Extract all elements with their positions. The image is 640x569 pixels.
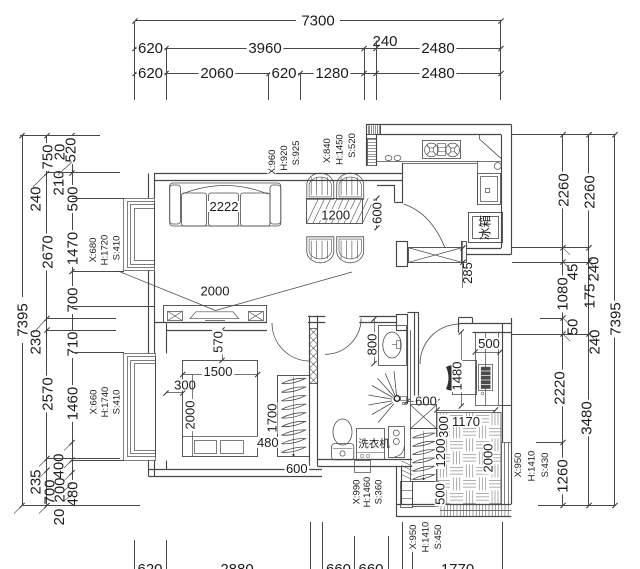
svg-text:20: 20	[51, 509, 68, 526]
svg-text:2480: 2480	[421, 40, 454, 57]
svg-text:500: 500	[478, 336, 500, 351]
svg-text:620: 620	[138, 40, 163, 57]
svg-text:2060: 2060	[200, 65, 233, 82]
svg-text:洗衣机: 洗衣机	[358, 437, 390, 450]
svg-text:X:950: X:950	[513, 453, 524, 478]
svg-text:2222: 2222	[210, 199, 239, 214]
svg-text:1480: 1480	[450, 362, 465, 391]
svg-text:660: 660	[326, 561, 351, 569]
svg-text:H:1410: H:1410	[526, 451, 537, 482]
svg-text:1080: 1080	[554, 277, 571, 310]
svg-text:2220: 2220	[551, 371, 568, 404]
svg-text:1200: 1200	[433, 439, 448, 468]
svg-text:620: 620	[271, 65, 296, 82]
svg-text:700: 700	[64, 287, 81, 312]
svg-text:S:520: S:520	[347, 133, 358, 158]
svg-text:600: 600	[415, 394, 437, 409]
svg-text:2260: 2260	[581, 175, 598, 208]
svg-text:S:925: S:925	[291, 141, 302, 166]
svg-text:500: 500	[433, 483, 448, 505]
svg-text:X:660: X:660	[88, 390, 99, 415]
svg-text:2670: 2670	[39, 235, 56, 268]
svg-text:50: 50	[564, 319, 581, 336]
svg-text:S:430: S:430	[540, 453, 551, 478]
svg-text:300: 300	[436, 416, 451, 438]
svg-text:1470: 1470	[64, 232, 81, 265]
svg-text:7300: 7300	[301, 12, 334, 29]
svg-text:H:1740: H:1740	[100, 387, 111, 418]
svg-text:1770: 1770	[441, 561, 474, 569]
svg-text:1170: 1170	[452, 414, 480, 429]
svg-text:H:1720: H:1720	[99, 235, 110, 266]
svg-text:2880: 2880	[220, 561, 253, 569]
svg-text:2000: 2000	[481, 444, 496, 473]
svg-text:20: 20	[51, 144, 68, 161]
svg-text:600: 600	[370, 202, 385, 224]
svg-text:X:950: X:950	[408, 525, 419, 550]
svg-text:X:680: X:680	[88, 238, 99, 263]
svg-text:400: 400	[50, 453, 67, 478]
svg-text:H:1460: H:1460	[362, 477, 373, 508]
svg-text:H:1450: H:1450	[334, 134, 345, 165]
svg-text:1460: 1460	[64, 387, 81, 420]
svg-text:2570: 2570	[39, 377, 56, 410]
svg-text:S:410: S:410	[111, 236, 122, 261]
svg-text:2480: 2480	[421, 65, 454, 82]
svg-text:480: 480	[257, 435, 279, 450]
svg-text:1200: 1200	[321, 207, 350, 222]
svg-text:570: 570	[210, 331, 225, 353]
svg-text:X:960: X:960	[267, 150, 278, 175]
svg-text:H:1410: H:1410	[420, 522, 431, 553]
svg-text:230: 230	[27, 329, 44, 354]
svg-text:240: 240	[586, 329, 603, 354]
svg-text:1260: 1260	[554, 459, 571, 492]
svg-text:3960: 3960	[248, 40, 281, 57]
svg-text:620: 620	[138, 65, 163, 82]
svg-text:S:360: S:360	[373, 480, 384, 505]
svg-text:2000: 2000	[201, 283, 230, 298]
svg-text:S:410: S:410	[111, 390, 122, 415]
svg-text:620: 620	[137, 561, 162, 569]
svg-text:3480: 3480	[578, 401, 595, 434]
svg-text:600: 600	[286, 461, 308, 476]
svg-text:1280: 1280	[315, 65, 348, 82]
svg-text:X:990: X:990	[351, 480, 362, 505]
svg-text:240: 240	[27, 186, 44, 211]
svg-text:660: 660	[358, 561, 383, 569]
svg-text:2000: 2000	[182, 401, 197, 430]
svg-text:7395: 7395	[607, 302, 624, 335]
svg-text:1500: 1500	[204, 364, 233, 379]
svg-text:冰箱: 冰箱	[478, 215, 493, 240]
svg-text:240: 240	[585, 256, 602, 281]
svg-text:H:920: H:920	[279, 145, 290, 170]
svg-text:1700: 1700	[265, 404, 280, 433]
svg-text:175: 175	[581, 283, 598, 308]
svg-text:800: 800	[365, 334, 380, 356]
svg-text:S:450: S:450	[433, 525, 444, 550]
svg-text:480: 480	[64, 481, 81, 506]
svg-text:2260: 2260	[555, 173, 572, 206]
svg-text:X:840: X:840	[322, 138, 333, 163]
